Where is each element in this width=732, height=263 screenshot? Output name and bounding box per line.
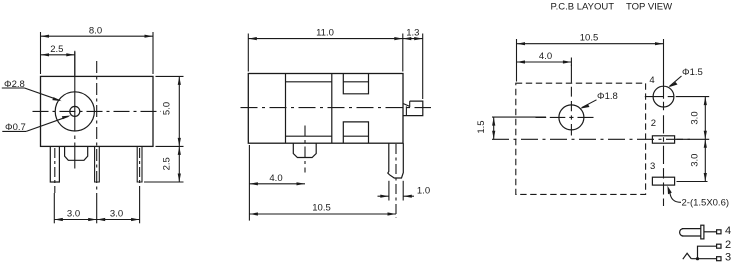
vertical centerline mid pin: [96, 61, 98, 197]
boss below body left view: [65, 146, 88, 160]
bump inner line: [405, 106, 407, 115]
dimension 4.0 middle: [249, 145, 305, 221]
small circle phi0.7: [70, 106, 80, 116]
top inner box: [343, 74, 368, 94]
inner horizontal line bottom: [286, 135, 332, 137]
slot pin3: [652, 177, 674, 185]
switch contact zigzag: [683, 253, 692, 259]
label phi1.8 with leader: [580, 100, 596, 109]
svg-text:3.0: 3.0: [67, 209, 80, 220]
bump wedge: [403, 101, 409, 106]
plug barrel: [682, 229, 701, 236]
svg-text:3: 3: [725, 252, 731, 263]
svg-text:3: 3: [650, 161, 655, 172]
hole horizontal centerline: [536, 116, 594, 118]
dimension 1.5 pcb: [492, 117, 546, 139]
slot pin2: [652, 136, 674, 143]
dimension 2.5 top: [41, 51, 75, 76]
label phi2.8 with leader: [2, 88, 62, 101]
dimension 5.0 right: [156, 76, 184, 146]
label phi1.5 with leader: [668, 76, 681, 87]
svg-text:2: 2: [725, 239, 731, 251]
svg-text:2: 2: [651, 118, 656, 129]
big circle phi2.8: [55, 92, 94, 131]
horizontal centerline left view: [33, 110, 162, 112]
inner vertical line V1: [285, 74, 287, 144]
pin4 circle phi1.5: [653, 86, 674, 107]
side switch bump: [403, 101, 423, 116]
dimension 3.0 lower pcb: [677, 139, 708, 181]
dimension 10.5 middle: [249, 212, 396, 215]
svg-text:Φ1.8: Φ1.8: [597, 91, 618, 102]
svg-text:3.0: 3.0: [690, 154, 701, 167]
svg-text:Φ0.7: Φ0.7: [5, 122, 26, 133]
dimension 3.0 3.0 bottom: [54, 193, 139, 223]
label phi0.7 with leader: [2, 116, 71, 132]
svg-text:3.0: 3.0: [110, 209, 123, 220]
label 2-(1.5X0.6) with leader: [667, 186, 681, 203]
svg-text:1.3: 1.3: [406, 27, 419, 38]
wire terminal3: [691, 258, 717, 260]
svg-text:2-(1.5X0.6): 2-(1.5X0.6): [682, 198, 730, 209]
right pin: [137, 146, 142, 182]
svg-text:Φ1.5: Φ1.5: [682, 67, 703, 78]
bottom inner box: [343, 122, 368, 143]
left pin: [50, 146, 59, 182]
pin4 horizontal centerline: [645, 96, 674, 98]
svg-text:2.5: 2.5: [50, 44, 63, 55]
board outline dashed: [516, 83, 646, 194]
svg-text:1.5: 1.5: [476, 120, 487, 133]
svg-text:2.5: 2.5: [162, 157, 173, 170]
terminal 4: [717, 230, 721, 234]
svg-text:4: 4: [649, 75, 654, 86]
terminal 2: [717, 244, 721, 248]
bottom inner box divider: [343, 135, 368, 137]
vertical centerline through circle: [74, 52, 76, 169]
top inner box divider: [343, 81, 368, 83]
terminal 3: [717, 257, 721, 261]
svg-text:4.0: 4.0: [539, 51, 552, 62]
svg-text:1.0: 1.0: [417, 186, 430, 197]
inner vertical line V2: [331, 74, 333, 144]
dimension 8.0 top: [41, 32, 154, 74]
dimension 3.0 upper pcb: [676, 97, 710, 140]
dimension 11.0: [248, 34, 402, 72]
boss below middle view: [293, 143, 316, 157]
hole vertical centerline: [570, 65, 572, 136]
boss centerline: [304, 126, 306, 173]
pins vertical centerline: [663, 81, 665, 207]
horizontal center axis middle view: [241, 107, 432, 109]
dimension 10.5 pcb: [517, 39, 664, 85]
svg-text:10.5: 10.5: [312, 203, 331, 214]
dimension 2.5 right: [144, 146, 184, 182]
plug barrel arc: [680, 229, 684, 236]
svg-text:TOP VIEW: TOP VIEW: [626, 2, 672, 13]
body outline left view: [41, 76, 154, 146]
dimension 1.3: [403, 34, 423, 100]
svg-text:5.0: 5.0: [162, 102, 173, 115]
right pin middle view: [388, 143, 404, 178]
middle pin: [95, 146, 100, 182]
svg-text:11.0: 11.0: [316, 27, 334, 38]
wire terminal2 to junction: [698, 246, 717, 259]
svg-text:10.5: 10.5: [580, 33, 599, 44]
plug stem wire: [704, 231, 717, 233]
plug flange: [701, 225, 704, 239]
svg-text:4: 4: [725, 225, 731, 237]
inner horizontal line top: [286, 81, 332, 83]
right pin centerline: [139, 148, 141, 193]
dimension 4.0 pcb: [517, 58, 572, 67]
dimension 1.0 pin: [378, 181, 415, 201]
main axis pcb: [492, 138, 690, 140]
svg-text:8.0: 8.0: [89, 25, 102, 36]
left pin centerline: [54, 148, 56, 193]
body outline middle view: [248, 74, 403, 144]
right pin centerline: [395, 144, 397, 218]
svg-text:Φ2.8: Φ2.8: [4, 79, 25, 90]
hole phi1.8: [559, 105, 584, 130]
svg-text:4.0: 4.0: [269, 173, 282, 184]
svg-text:3.0: 3.0: [690, 111, 701, 124]
svg-text:P.C.B LAYOUT: P.C.B LAYOUT: [551, 2, 615, 13]
junction dot: [696, 257, 699, 260]
